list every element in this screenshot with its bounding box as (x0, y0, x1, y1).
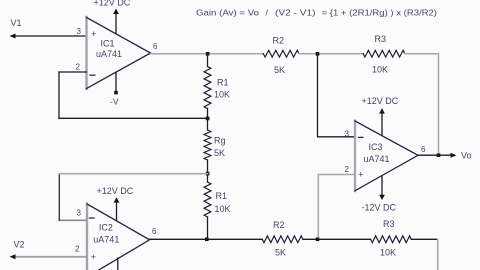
wire R1 to bottom rail (207, 217, 209, 239)
svg-text:+: + (91, 252, 97, 263)
svg-text:2: 2 (75, 245, 80, 254)
svg-text:3: 3 (77, 209, 82, 218)
wire R3 to right corner (405, 54, 439, 155)
-V supply stub IC2 (clipped) (117, 258, 119, 270)
svg-text:10K: 10K (214, 90, 230, 100)
wire Rg to node (207, 160, 209, 182)
svg-text:-V: -V (110, 97, 119, 107)
node junction output/R3 (437, 153, 441, 157)
svg-text:uA741: uA741 (93, 235, 119, 245)
svg-text:+12V DC: +12V DC (97, 186, 134, 196)
minus sign IC1 (90, 74, 95, 76)
resistor R1 (top) (204, 67, 211, 109)
wire R1 bottom to node (207, 109, 209, 131)
svg-text:IC2: IC2 (99, 223, 113, 233)
wire IC1 pin2 feedback horizontal (59, 71, 87, 73)
wire R3 to bottom-right corner (411, 238, 437, 240)
svg-text:R1: R1 (216, 191, 228, 201)
resistor R2 (top) (263, 50, 299, 57)
svg-text:uA741: uA741 (364, 154, 390, 164)
svg-text:+12V DC: +12V DC (362, 96, 399, 106)
svg-text:IC1: IC1 (101, 39, 115, 49)
wire IC1 output rail (151, 53, 264, 55)
svg-text:2: 2 (345, 165, 350, 174)
node junction Rg/R1 (206, 172, 210, 176)
svg-text:5K: 5K (274, 65, 285, 75)
svg-text:6: 6 (421, 145, 426, 154)
node junction R2/R3 bottom (316, 238, 320, 242)
svg-text:Rg: Rg (214, 135, 226, 145)
svg-text:R3: R3 (383, 219, 395, 229)
svg-text:uA741: uA741 (96, 49, 122, 59)
svg-text:+: + (358, 170, 364, 181)
+12V supply arrow IC2 (116, 201, 118, 221)
svg-text:-12V DC: -12V DC (362, 203, 397, 213)
svg-text:2: 2 (76, 63, 81, 72)
-12V supply arrow IC3 (381, 176, 383, 197)
minus sign IC3 (359, 136, 364, 138)
svg-text:6: 6 (152, 227, 157, 236)
+12V supply arrow IC1 (115, 13, 117, 34)
wire ground drop (clipped) (437, 239, 439, 270)
op-amp U1 (IC1 uA741) triangle (85, 17, 87, 89)
op-amp U3 (IC3 uA741) triangle (354, 121, 356, 192)
resistor R3 (top) (363, 50, 405, 57)
wire IC1 feedback to R1/Rg node (59, 117, 208, 119)
resistor R2 (bottom) (262, 236, 303, 243)
wire IC3 output (418, 154, 453, 156)
svg-text:10K: 10K (372, 65, 388, 75)
svg-text:6: 6 (153, 42, 158, 51)
svg-text:3: 3 (345, 129, 350, 138)
svg-text:+: + (91, 29, 97, 40)
node junction R1/Rg (206, 117, 210, 121)
svg-text:3: 3 (77, 27, 82, 36)
wire IC1 feedback vertical (58, 72, 60, 118)
svg-text:5K: 5K (275, 248, 286, 258)
-V supply stub IC1 (115, 73, 117, 92)
wire column top node to R1 (207, 54, 209, 67)
svg-text:10K: 10K (215, 204, 231, 214)
resistor Rg (204, 130, 211, 160)
svg-text:= {1 + (2R1/Rg) ) x (R3/R2): = {1 + (2R1/Rg) ) x (R3/R2) (322, 7, 438, 17)
op-amp U2 (IC2 uA741) triangle (86, 204, 88, 270)
resistor R3 (bottom) (371, 236, 412, 243)
+12V supply arrow IC3 (381, 112, 383, 136)
Vo arrow terminal (451, 153, 457, 158)
svg-text:+12V DC: +12V DC (94, 0, 131, 7)
svg-text:R1: R1 (217, 78, 229, 88)
wire IC2 output rail (150, 238, 263, 240)
V1 arrow terminal (10, 34, 16, 39)
wire top node down to IC3 pin3 (318, 54, 356, 137)
wire V2 input (14, 256, 87, 258)
svg-text:10K: 10K (380, 248, 396, 258)
svg-text:Gain (Av) = Vo: Gain (Av) = Vo (196, 7, 259, 17)
svg-text:R2: R2 (273, 36, 285, 46)
wire R2 to node (299, 53, 363, 55)
resistor R1 (bottom) (204, 182, 211, 217)
wire V1 input (14, 35, 87, 37)
node junction R2/R3 top (316, 52, 320, 56)
wire IC3 pin2 loop (318, 175, 355, 240)
wire IC2 pin3 loop (59, 219, 87, 221)
V2 arrow terminal (10, 254, 16, 259)
node junction IC1-out / R1 top (206, 52, 210, 56)
svg-text:R2: R2 (273, 220, 285, 230)
minus sign IC2 (90, 217, 95, 219)
svg-text:IC3: IC3 (369, 142, 383, 152)
node junction bottom rail (205, 238, 209, 242)
svg-text:V1: V1 (11, 18, 22, 28)
svg-text:V2: V2 (14, 240, 25, 250)
svg-text:5K: 5K (214, 148, 225, 158)
svg-text:R3: R3 (375, 34, 387, 44)
svg-text:Vo: Vo (461, 151, 472, 161)
wire R2 to bottom node (303, 238, 371, 240)
svg-text:(V2 - V1): (V2 - V1) (275, 7, 316, 17)
